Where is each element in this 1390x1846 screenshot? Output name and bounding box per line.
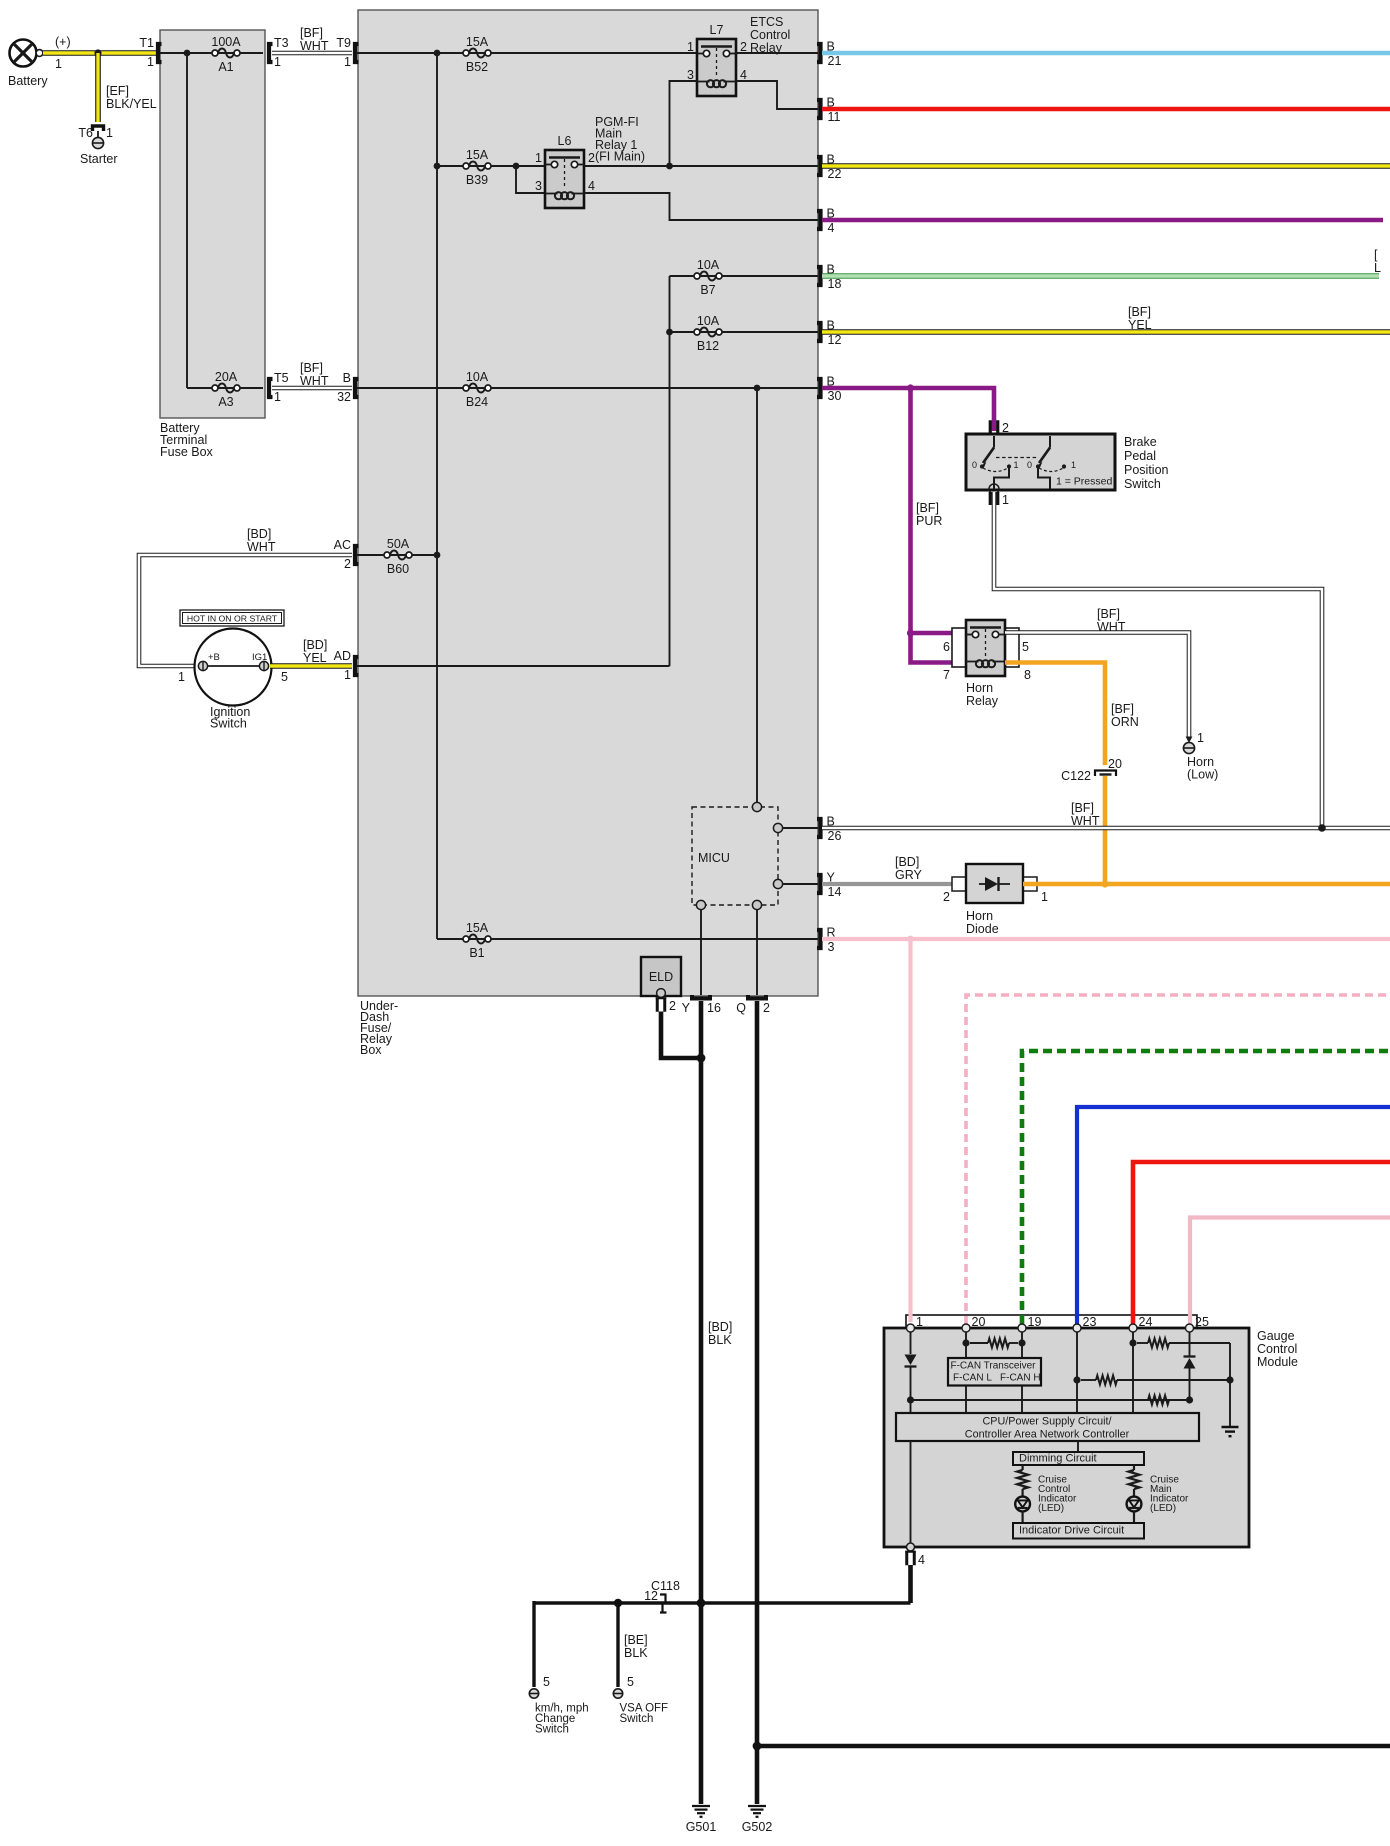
label clipped right edge xyxy=(1374,248,1381,275)
junction purple horn branch xyxy=(907,384,914,391)
ground G501 xyxy=(692,1806,710,1817)
label 1 starter pin xyxy=(106,126,113,140)
svg-text:1: 1 xyxy=(1041,890,1048,904)
label Horn Diode xyxy=(966,909,999,936)
svg-text:T3: T3 xyxy=(274,36,289,50)
label B 22 xyxy=(827,153,842,182)
svg-text:G501: G501 xyxy=(686,1820,717,1834)
wire brake switch pin1 white xyxy=(994,492,1322,826)
ignition switch circle xyxy=(195,629,272,706)
junction pink xyxy=(907,936,914,943)
svg-text:25: 25 xyxy=(1195,1315,1209,1329)
svg-text:5: 5 xyxy=(1022,640,1029,654)
connector B18 xyxy=(817,267,821,285)
VSA terminal xyxy=(613,1689,622,1698)
label 1 T3 xyxy=(274,55,281,69)
wire AC to B60 xyxy=(357,554,437,556)
wire B24 junction to MICU top xyxy=(756,388,758,803)
wire R3 pink xyxy=(822,937,1390,941)
junction bus B60 xyxy=(434,552,441,559)
label (+) xyxy=(55,35,71,49)
MICU terminal Q2 xyxy=(752,900,761,909)
ELD box xyxy=(641,957,681,996)
label 3 L6 xyxy=(535,179,542,193)
svg-text:4: 4 xyxy=(588,179,595,193)
wire pin23 res row xyxy=(1081,1379,1230,1381)
F-CAN transceiver box xyxy=(948,1358,1041,1386)
svg-text:[BF]: [BF] xyxy=(1111,702,1134,716)
svg-text:BLK: BLK xyxy=(624,1646,648,1660)
label F-CAN Transceiver xyxy=(950,1361,1036,1372)
svg-text:C122: C122 xyxy=(1061,769,1091,783)
svg-text:+B: +B xyxy=(208,652,220,663)
MICU terminal Y14 xyxy=(773,879,782,888)
wire pin20-pin19 row xyxy=(970,1342,1018,1344)
wire pink down to module pin1 xyxy=(908,939,912,1322)
label 15A B39 xyxy=(466,148,489,162)
label Battery Terminal Fuse Box xyxy=(160,421,214,459)
label T6 xyxy=(78,126,93,140)
label [BF] WHT B26 xyxy=(1071,801,1100,828)
fuse B12 10A xyxy=(694,328,722,337)
wire B24 row xyxy=(357,387,818,389)
svg-text:Relay: Relay xyxy=(966,694,999,708)
svg-text:20: 20 xyxy=(1108,757,1122,771)
wire B26 white xyxy=(822,826,1390,831)
label 10A B24 xyxy=(466,370,489,384)
label B24 xyxy=(466,395,488,409)
junction B26/brake xyxy=(1318,824,1326,832)
svg-text:[BD]: [BD] xyxy=(247,527,271,541)
svg-text:BLK/YEL: BLK/YEL xyxy=(106,97,157,111)
junction VSA xyxy=(614,1599,622,1607)
svg-text:5: 5 xyxy=(281,670,288,684)
svg-text:Position: Position xyxy=(1124,463,1169,477)
gauge module pin strip xyxy=(906,1315,1197,1328)
svg-text:Control: Control xyxy=(750,28,790,42)
svg-text:F-CAN Transceiver: F-CAN Transceiver xyxy=(950,1361,1036,1372)
svg-text:Indicator Drive Circuit: Indicator Drive Circuit xyxy=(1019,1525,1124,1537)
wire Y14 gray xyxy=(822,882,966,886)
fuse A3 20A xyxy=(212,384,240,393)
svg-text:1 = Pressed: 1 = Pressed xyxy=(1056,476,1112,488)
svg-text:YEL: YEL xyxy=(1128,318,1152,332)
wire pin20 v xyxy=(965,1332,967,1358)
label C122 xyxy=(1061,769,1091,783)
wire L6 pin4 to B4 xyxy=(584,193,818,220)
label 2 L6 xyxy=(588,151,595,165)
horn diode terminal left xyxy=(952,877,966,891)
svg-text:[BF]: [BF] xyxy=(300,361,323,375)
svg-text:4: 4 xyxy=(918,1553,925,1567)
ELD terminal xyxy=(657,989,666,998)
svg-text:1: 1 xyxy=(55,57,62,71)
gauge control module box xyxy=(884,1328,1249,1547)
brake switch pin1 connector xyxy=(989,484,1009,507)
label [BF] YEL right xyxy=(1128,305,1152,332)
connector B22 xyxy=(817,157,821,175)
wire pin1 bottom xyxy=(910,1441,912,1543)
connector Y16 xyxy=(692,995,710,999)
horn diode terminal right xyxy=(1023,877,1037,891)
label 12 C118 xyxy=(644,1589,658,1603)
resistor led1 xyxy=(1017,1470,1028,1489)
wire B21 cyan xyxy=(822,51,1390,56)
svg-text:15A: 15A xyxy=(466,921,489,935)
svg-text:L7: L7 xyxy=(710,23,724,37)
wire MICU Q2 down xyxy=(756,910,758,995)
svg-text:[BD]: [BD] xyxy=(708,1320,732,1334)
svg-text:[BD]: [BD] xyxy=(303,638,327,652)
svg-text:WHT: WHT xyxy=(300,374,329,388)
CPU box xyxy=(896,1413,1199,1441)
fuse B1 15A xyxy=(463,935,491,944)
junction L7pin3/B22 xyxy=(666,163,673,170)
svg-text:WHT: WHT xyxy=(300,39,329,53)
wire horn relay pin8 orange xyxy=(1005,663,1105,766)
svg-text:B: B xyxy=(343,371,351,385)
junction pin23 xyxy=(1073,1376,1080,1383)
brake switch pin2 connector xyxy=(990,420,1009,435)
fuse B7 10A xyxy=(694,272,722,281)
svg-text:GRY: GRY xyxy=(895,868,923,882)
wire B39 row xyxy=(437,165,545,167)
label 0 left xyxy=(972,460,977,470)
horn diode box xyxy=(966,864,1023,903)
label 10A B7 xyxy=(697,258,720,272)
label [BD] YEL xyxy=(303,638,327,665)
label Cruise Control Indicator (LED) xyxy=(1038,1475,1077,1515)
horn relay terminal box right xyxy=(1005,628,1019,667)
module pin 1 circle xyxy=(907,1324,915,1332)
svg-text:19: 19 xyxy=(1028,1315,1042,1329)
label [BF] WHT top xyxy=(300,26,329,53)
label 5 kmh xyxy=(543,1675,550,1689)
junction L6 pin3 branch xyxy=(513,163,520,170)
MICU terminal Y16 xyxy=(696,900,705,909)
wire pin25 v xyxy=(1189,1332,1191,1356)
junction pin19 xyxy=(1018,1339,1025,1346)
label B39 xyxy=(466,173,488,187)
label B 21 xyxy=(827,40,842,69)
svg-text:1: 1 xyxy=(1197,731,1204,745)
module ground xyxy=(1222,1427,1239,1436)
svg-text:G502: G502 xyxy=(742,1820,773,1834)
wire pin1 v2 xyxy=(910,1367,912,1414)
diode pin1 xyxy=(905,1355,917,1367)
connector B11 xyxy=(817,100,821,118)
svg-text:Q: Q xyxy=(736,1001,746,1015)
label 2 L7 xyxy=(740,40,747,54)
svg-text:1: 1 xyxy=(1014,460,1019,470)
label C118 xyxy=(651,1579,680,1593)
label 4 L6 xyxy=(588,179,595,193)
label pin 1 xyxy=(916,1315,923,1329)
label 1 L7 xyxy=(687,40,694,54)
brake pedal position switch box xyxy=(966,434,1115,490)
svg-text:WHT: WHT xyxy=(1097,620,1126,634)
svg-text:BLK: BLK xyxy=(708,1333,732,1347)
label Starter xyxy=(80,152,118,166)
label Horn Relay xyxy=(966,681,999,708)
module pin 23 circle xyxy=(1073,1324,1081,1332)
under-dash fuse/relay box xyxy=(358,10,818,996)
junction purple pin6 xyxy=(907,629,914,636)
LED cruise control indicator xyxy=(1015,1497,1030,1512)
svg-text:1: 1 xyxy=(147,55,154,69)
label 1 T9 xyxy=(344,55,351,69)
svg-text:2: 2 xyxy=(943,890,950,904)
label B60 xyxy=(387,562,409,576)
svg-text:1: 1 xyxy=(1071,460,1076,470)
wire led2 mid xyxy=(1133,1489,1135,1497)
fuse B60 50A xyxy=(384,551,412,560)
wire B12 row xyxy=(670,331,819,333)
junction G501/bottom row xyxy=(697,1599,706,1608)
label [BD] BLK xyxy=(708,1320,732,1347)
connector B26 xyxy=(817,819,821,837)
label [BD] WHT xyxy=(247,527,276,554)
label 20 C122 xyxy=(1108,757,1122,771)
brake switch link dashed xyxy=(996,457,1038,459)
label Ignition Switch xyxy=(210,705,250,731)
junction battery/starter xyxy=(94,49,101,56)
label Y 16 xyxy=(682,1001,721,1015)
label T1 xyxy=(139,36,154,50)
label HOT IN ON OR START xyxy=(187,614,278,624)
label 3 L7 xyxy=(687,68,694,82)
svg-text:L6: L6 xyxy=(558,134,572,148)
indicator drive circuit box xyxy=(1013,1523,1144,1539)
svg-text:(LED): (LED) xyxy=(1038,1503,1064,1514)
label F-CAN L F-CAN H xyxy=(953,1373,1041,1384)
label T5 xyxy=(274,371,289,385)
wire MICU to Y14 xyxy=(783,883,818,885)
label T3 xyxy=(274,36,289,50)
label 10A B12 xyxy=(697,314,720,328)
brake switch left pole xyxy=(980,436,1011,489)
svg-text:20: 20 xyxy=(972,1315,986,1329)
label Y 14 xyxy=(827,871,842,900)
label 5 xyxy=(1022,640,1029,654)
svg-text:5: 5 xyxy=(627,1675,634,1689)
svg-text:8: 8 xyxy=(1024,668,1031,682)
wire pin24 res row xyxy=(1137,1342,1230,1344)
svg-text:2: 2 xyxy=(669,999,676,1013)
kmh terminal xyxy=(529,1689,538,1698)
svg-text:3: 3 xyxy=(687,68,694,82)
connector AD xyxy=(355,657,359,675)
svg-text:5: 5 xyxy=(543,1675,550,1689)
wire bottom row black xyxy=(534,1601,911,1604)
wire AC white loop xyxy=(139,555,352,666)
wire B12 yellow xyxy=(822,329,1390,335)
svg-text:(FI Main): (FI Main) xyxy=(595,150,645,164)
svg-text:ORN: ORN xyxy=(1111,715,1139,729)
svg-text:Switch: Switch xyxy=(535,1724,569,1736)
svg-text:1: 1 xyxy=(344,668,351,682)
label 1 ignition xyxy=(178,670,185,684)
label 2 horn diode xyxy=(943,890,950,904)
svg-text:2: 2 xyxy=(1002,421,1009,435)
label km/h mph Change Switch xyxy=(535,1703,589,1736)
svg-text:12: 12 xyxy=(828,333,842,347)
svg-text:10A: 10A xyxy=(697,314,720,328)
label +B xyxy=(208,652,220,663)
label [BF] PUR xyxy=(916,501,942,528)
label B1 xyxy=(469,946,484,960)
label Q 2 xyxy=(736,1001,770,1015)
svg-text:32: 32 xyxy=(337,390,351,404)
svg-text:10A: 10A xyxy=(697,258,720,272)
svg-text:1: 1 xyxy=(106,126,113,140)
svg-text:B39: B39 xyxy=(466,173,488,187)
svg-text:Dimming Circuit: Dimming Circuit xyxy=(1019,1453,1097,1465)
label 15A B1 xyxy=(466,921,489,935)
label CPU/Power Supply Circuit/ xyxy=(982,1416,1111,1428)
terminal +B xyxy=(198,661,207,670)
svg-text:4: 4 xyxy=(828,221,835,235)
svg-text:AD: AD xyxy=(334,649,351,663)
horn wire arrowhead xyxy=(1186,737,1193,744)
label Under-Dash Fuse/Relay Box xyxy=(360,999,398,1057)
label 1 = Pressed xyxy=(1056,476,1112,488)
label 5 ignition xyxy=(281,670,288,684)
svg-text:Control: Control xyxy=(1257,1342,1297,1356)
brake switch right pole xyxy=(1036,436,1066,489)
connector C122 xyxy=(1095,771,1116,777)
wire pin25 v2 xyxy=(1189,1369,1191,1401)
svg-text:B52: B52 xyxy=(466,60,488,74)
svg-text:B1: B1 xyxy=(469,946,484,960)
label ETCS Control Relay xyxy=(750,15,790,55)
wire module pin4 black xyxy=(910,1551,912,1603)
junction B24/MICU xyxy=(754,385,761,392)
svg-text:IG1: IG1 xyxy=(252,652,267,663)
wire led1 bottom xyxy=(1021,1511,1023,1523)
wire fcan to cpu left xyxy=(965,1386,967,1414)
label Dimming Circuit xyxy=(1019,1453,1097,1465)
label pin 19 xyxy=(1028,1315,1042,1329)
wire B18 light green xyxy=(822,273,1379,279)
connector T9 xyxy=(355,44,359,62)
relay L6 PGM-FI main relay xyxy=(545,150,584,208)
horn relay terminal box left xyxy=(952,628,966,667)
label B 30 xyxy=(827,375,842,404)
wire led2 bottom xyxy=(1133,1511,1135,1523)
svg-text:[BF]: [BF] xyxy=(916,501,939,515)
module pin 25 circle xyxy=(1186,1324,1194,1332)
wire MICU Y16 down xyxy=(700,910,702,995)
label pin 23 xyxy=(1083,1315,1097,1329)
svg-text:14: 14 xyxy=(828,885,842,899)
label 5 VSA xyxy=(627,1675,634,1689)
label 1 left xyxy=(1014,460,1019,470)
junction pin24 xyxy=(1129,1339,1136,1346)
ground G502 xyxy=(748,1806,766,1817)
label B 12 xyxy=(827,319,842,348)
svg-text:T6: T6 xyxy=(78,126,93,140)
wire led1 top xyxy=(1021,1465,1023,1471)
svg-text:Pedal: Pedal xyxy=(1124,449,1156,463)
module pin4 connector xyxy=(905,1551,925,1567)
svg-text:22: 22 xyxy=(828,167,842,181)
connector R3 xyxy=(817,930,821,948)
resistor pin24 xyxy=(1148,1339,1169,1348)
label R 3 xyxy=(827,926,836,955)
label L7 xyxy=(710,23,724,37)
label B 32 xyxy=(337,371,351,404)
wire +B to IG1 xyxy=(203,665,264,667)
resistor led2 xyxy=(1129,1470,1140,1489)
label 6 xyxy=(943,640,950,654)
svg-text:Horn: Horn xyxy=(966,909,993,923)
wire C122 down orange xyxy=(1103,776,1108,884)
wire dashed green xyxy=(1022,1051,1390,1324)
MICU terminal B26 xyxy=(773,823,782,832)
svg-text:23: 23 xyxy=(1083,1315,1097,1329)
svg-text:1: 1 xyxy=(178,670,185,684)
wire B1 row xyxy=(437,938,818,940)
svg-text:1: 1 xyxy=(274,390,281,404)
fuse A1 100A xyxy=(212,49,240,58)
wire bottom right black xyxy=(757,1744,1390,1749)
junction orange xyxy=(1101,880,1108,887)
svg-text:[BF]: [BF] xyxy=(1097,607,1120,621)
label [BF] WHT mid xyxy=(300,361,329,388)
svg-text:B7: B7 xyxy=(700,283,715,297)
label MICU xyxy=(698,851,730,865)
svg-text:50A: 50A xyxy=(387,537,410,551)
label AD 1 xyxy=(334,649,351,682)
svg-text:15A: 15A xyxy=(466,35,489,49)
svg-text:Y: Y xyxy=(682,1001,691,1015)
wire pink to pin25 xyxy=(1190,1218,1390,1325)
svg-text:10A: 10A xyxy=(466,370,489,384)
label B 26 xyxy=(827,815,842,844)
wire L6 pin3 branch xyxy=(516,166,545,193)
wire to A3 fuse xyxy=(187,387,263,389)
wire B4 purple xyxy=(822,218,1383,223)
label T9 xyxy=(336,36,351,50)
svg-text:Diode: Diode xyxy=(966,922,999,936)
label [BD] GRY xyxy=(895,855,923,882)
svg-text:4: 4 xyxy=(740,68,747,82)
label 1 T5 xyxy=(274,390,281,404)
wire blue xyxy=(1077,1107,1390,1324)
junction A1/A3 branch xyxy=(184,50,191,57)
svg-text:100A: 100A xyxy=(211,35,241,49)
label 0 right xyxy=(1027,460,1032,470)
svg-text:15A: 15A xyxy=(466,148,489,162)
svg-text:Controller Area Network Contro: Controller Area Network Controller xyxy=(965,1429,1130,1441)
svg-text:A1: A1 xyxy=(218,60,233,74)
connector AC xyxy=(355,546,359,564)
label 1 battery pin xyxy=(55,57,62,71)
svg-text:2: 2 xyxy=(763,1001,770,1015)
label Cruise Main Indicator (LED) xyxy=(1150,1475,1189,1515)
svg-text:Starter: Starter xyxy=(80,152,118,166)
module pin 24 circle xyxy=(1129,1324,1137,1332)
horn relay xyxy=(966,620,1005,676)
svg-text:A3: A3 xyxy=(218,395,233,409)
svg-text:(Low): (Low) xyxy=(1187,768,1218,782)
svg-text:Module: Module xyxy=(1257,1355,1298,1369)
label B 4 xyxy=(827,207,835,236)
svg-text:YEL: YEL xyxy=(303,651,327,665)
svg-text:30: 30 xyxy=(828,389,842,403)
svg-text:0: 0 xyxy=(1027,460,1032,470)
